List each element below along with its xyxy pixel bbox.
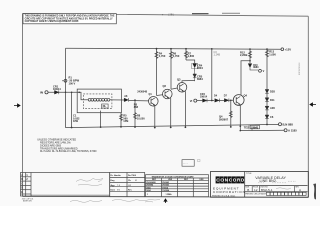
svg-text:MICROFILM: MICROFILM [299, 63, 301, 75]
svg-text:1N3064: 1N3064 [162, 189, 170, 192]
sheet border right [307, 16, 309, 197]
svg-text:1N914: 1N914 [162, 186, 169, 189]
junction dots [65, 48, 268, 132]
svg-text:0983: 0983 [146, 187, 150, 189]
diode CR1 [55, 90, 59, 94]
wire ground bus [66, 124, 279, 127]
sheet border bottom [23, 195, 309, 198]
svg-text:2N2907: 2N2907 [219, 117, 229, 121]
transistor Q2 [163, 89, 173, 99]
svg-text:B,N 888: B,N 888 [283, 123, 294, 127]
conversion chart [146, 175, 209, 197]
wire left rail [65, 48, 67, 127]
resistor R4 [156, 49, 158, 96]
pencil scribbles [70, 179, 160, 203]
Q4 collector wire [241, 61, 250, 95]
revision table [21, 173, 110, 197]
next-assy stamp box [182, 160, 194, 167]
svg-text:B: B [247, 188, 249, 192]
svg-text:0604: 0604 [197, 66, 203, 70]
wire input line [49, 91, 78, 93]
svg-text:4,700: 4,700 [159, 54, 166, 58]
svg-text:THIS DRAWING IS FURNISHED ONLY: THIS DRAWING IS FURNISHED ONLY FOR PDP A… [25, 15, 115, 18]
approval table [110, 173, 145, 197]
diode CR4 [193, 64, 197, 71]
Q2 emitter leg [170, 98, 172, 128]
svg-text:8984: 8984 [197, 77, 203, 81]
DL ground leg [100, 111, 102, 128]
svg-text:1PB: 1PB [123, 119, 128, 123]
svg-text:A06: A06 [270, 106, 275, 110]
svg-text:2N3643: 2N3643 [162, 184, 169, 187]
diode CR10 [248, 64, 258, 70]
size row [252, 186, 294, 192]
svg-text:1PB: 1PB [73, 119, 78, 123]
svg-text:12: 12 [254, 188, 258, 192]
left fold arrow [14, 104, 20, 107]
wire +12V top bus [66, 47, 282, 50]
svg-text:BN2-5-1: BN2-5-1 [261, 188, 273, 192]
svg-text:Dr. Hamlin: Dr. Hamlin [111, 174, 122, 177]
+12V terminal [281, 48, 284, 51]
svg-text:- - - -: - - - - [183, 163, 188, 165]
diode chain CR12 [265, 98, 269, 102]
sheet border left [22, 14, 24, 197]
B OUT terminal [279, 123, 282, 126]
resistor R9 [230, 100, 232, 127]
svg-text:COPYRIGHT 1969 BY ZENITH EQUIP: COPYRIGHT 1969 BY ZENITH EQUIPMENT CORP. [25, 21, 79, 23]
diode CR6 [215, 99, 220, 103]
svg-text:10,000: 10,000 [137, 117, 145, 120]
svg-text:100 V: 100 V [69, 82, 76, 86]
svg-text:2436048: 2436048 [137, 90, 147, 93]
diode CR5 [193, 71, 197, 81]
svg-text:A 1185: A 1185 [288, 129, 297, 133]
A OUT terminal [284, 129, 287, 132]
revision stamp text top [162, 12, 175, 16]
svg-text:D11: D11 [270, 98, 275, 102]
svg-text:DL: DL [103, 104, 107, 108]
svg-text:4,700: 4,700 [173, 54, 180, 58]
svg-text:2N8984: 2N8984 [146, 184, 154, 187]
transistor Q4 [233, 95, 244, 106]
diode chain CR13 [265, 106, 269, 110]
bottom fold arrow [164, 199, 167, 203]
svg-text:AMER MO: AMER MO [23, 200, 33, 203]
svg-text:2,2KB: 2,2KB [240, 53, 247, 57]
svg-text:M: M [135, 180, 137, 182]
terminal V1 [194, 99, 197, 102]
sheet border top [23, 14, 309, 17]
svg-text:1.24B: 1.24B [214, 53, 221, 56]
wire R7 elbow [186, 60, 195, 63]
svg-text:888: 888 [134, 106, 139, 109]
svg-text:JW: JW [128, 185, 131, 187]
svg-text:D28: D28 [270, 90, 275, 94]
Q4 emitter leg to A line [239, 105, 241, 130]
transistor Q3 [177, 83, 187, 93]
svg-text:+12V: +12V [285, 47, 292, 51]
Q3 emitter leg [184, 91, 186, 127]
terminal V2 [259, 69, 262, 72]
delay line coil [83, 98, 112, 101]
svg-text:8984: 8984 [253, 66, 259, 69]
svg-text:C6: C6 [270, 115, 274, 119]
ink blob right edge [313, 184, 316, 200]
svg-text:1,800: 1,800 [188, 54, 195, 58]
svg-text:1 RMA: 1 RMA [166, 193, 173, 196]
wire Q1 collector to Q2 base [157, 94, 163, 97]
resistor R6 [170, 49, 172, 89]
svg-text:CORPORATION: CORPORATION [213, 190, 246, 194]
chain wire [266, 88, 268, 125]
notice box top-left [23, 14, 116, 24]
tick strip [32, 194, 108, 196]
capacitor C1 leg [71, 92, 73, 127]
right fold arrow [310, 103, 316, 106]
resistor R7 [185, 49, 187, 60]
resistor R5 leg [120, 113, 122, 127]
svg-text:2N3604B8: 2N3604B8 [146, 181, 156, 184]
svg-text:VI: VI [190, 99, 193, 103]
svg-text:TRANSISTORS ARE UNMARKED: TRANSISTORS ARE UNMARKED [40, 147, 78, 150]
Q1 emitter leg [154, 105, 156, 127]
svg-text:| 2B |: | 2B | [168, 12, 174, 16]
wire A-out line [240, 129, 284, 131]
wire R6 to Q3 base [171, 88, 177, 89]
svg-text:1,000: 1,000 [269, 52, 276, 56]
svg-text:LINE BN2.: LINE BN2. [260, 179, 277, 183]
svg-text:1N914: 1N914 [200, 96, 208, 99]
input terminal J1 [45, 91, 48, 94]
diode CR7 [224, 99, 229, 103]
resistor R12 [249, 49, 251, 63]
DL sub box [102, 104, 109, 108]
svg-text:PRINTED CIRCUIT ASSY: PRINTED CIRCUIT ASSY [245, 192, 267, 195]
svg-text:Q2: Q2 [163, 84, 167, 88]
delay line DL1 dashed box [83, 94, 112, 109]
svg-text:1N914: 1N914 [53, 87, 61, 91]
svg-text:▼: ▼ [162, 13, 164, 16]
svg-text:IN: IN [40, 91, 43, 95]
svg-text:TITLE: TITLE [246, 173, 252, 175]
diode chain CR11 [265, 90, 269, 94]
wire CR5 to Q3 [182, 81, 195, 83]
svg-text:Q3: Q3 [177, 78, 181, 82]
svg-text:Q4: Q4 [244, 94, 248, 98]
wire CR2 to Q1 [129, 100, 149, 102]
diode CR2 [124, 98, 128, 102]
delay line DL1 outer box [77, 89, 121, 113]
pot R1 on left rail [64, 79, 67, 82]
svg-text:CIRCUITS ARE COPYRIGHT TO NOTI: CIRCUITS ARE COPYRIGHT TO NOTICE AND DET… [25, 17, 114, 20]
transistor Q1 [149, 97, 159, 107]
svg-text:TE2: TE2 [244, 125, 249, 129]
svg-text:2N3643: 2N3643 [162, 181, 169, 184]
svg-text:Da 7/6/6: Da 7/6/6 [128, 175, 137, 177]
wire into DL [77, 92, 83, 100]
scale row [245, 192, 267, 195]
diode CR3 [203, 99, 207, 103]
resistor R8 leg [134, 100, 136, 127]
wire V1 to diodes [197, 100, 203, 102]
svg-text:DL IS ESC DL-72-B3 DELAY LINE,: DL IS ESC DL-72-B3 DELAY LINE, TD=500NS,… [40, 150, 97, 153]
resistor R13 [266, 49, 268, 88]
logo CONCORD [216, 176, 245, 183]
diode chain CR14 [265, 115, 269, 119]
svg-text:PRINTED IN U.S.A. 303-1: PRINTED IN U.S.A. 303-1 [212, 194, 236, 197]
svg-text:TRANSISTOR & DIODE CONVERSION: TRANSISTOR & DIODE CONVERSION CHART [152, 175, 195, 178]
wire drop x=214 [211, 49, 213, 101]
wire out of DL [112, 99, 124, 101]
